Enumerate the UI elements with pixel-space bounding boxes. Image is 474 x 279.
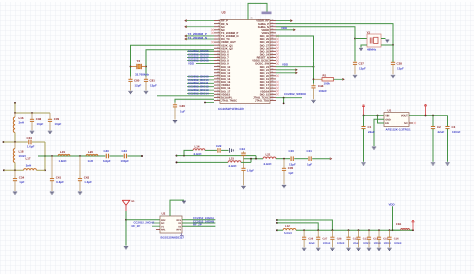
wire CC2652_DIO10 xyxy=(187,79,214,81)
ground below C3 xyxy=(445,163,449,165)
svg-text:6: 6 xyxy=(218,34,219,37)
svg-text:GND: GND xyxy=(385,118,391,121)
svg-text:C34: C34 xyxy=(19,175,25,179)
svg-text:31: 31 xyxy=(251,17,253,20)
wire VDDS to decoupling column xyxy=(276,36,314,61)
svg-text:L18: L18 xyxy=(19,149,24,153)
wire VDDS2 stub xyxy=(157,95,214,97)
junction C16 xyxy=(389,229,391,231)
svg-text:100nF: 100nF xyxy=(363,242,371,245)
wire after FB1 xyxy=(410,229,413,231)
wire VDDS column lower xyxy=(313,61,315,83)
svg-text:35: 35 xyxy=(271,58,273,61)
ground below C26 xyxy=(302,248,306,250)
svg-text:C22: C22 xyxy=(216,144,222,148)
svg-text:C28: C28 xyxy=(337,238,342,241)
ground below C34 xyxy=(13,192,17,194)
junction C14 xyxy=(368,229,370,231)
wire DCDC stub 2 xyxy=(276,72,297,74)
svg-text:25: 25 xyxy=(271,89,273,92)
svg-text:100nF: 100nF xyxy=(374,242,382,245)
svg-text:31: 31 xyxy=(271,70,273,73)
capacitor C24 series vertical xyxy=(241,151,246,159)
U3 left pins xyxy=(214,18,239,102)
wire X48M_P to crystal Y2 right xyxy=(276,24,393,45)
svg-text:25: 25 xyxy=(217,92,219,95)
capacitor C33 series xyxy=(29,140,45,145)
svg-text:8: 8 xyxy=(218,40,219,43)
svg-text:11: 11 xyxy=(217,49,219,52)
wire supply 1 xyxy=(277,220,332,230)
wire DCDC stub 1 xyxy=(276,69,297,71)
wire U2 top pin to gnd xyxy=(170,200,184,216)
capacitor C40 series xyxy=(106,154,123,159)
wire CC2652_DIO12 xyxy=(187,86,214,88)
svg-text:L12: L12 xyxy=(285,224,290,228)
inductor L18 xyxy=(13,142,15,170)
wire balun output xyxy=(276,158,290,160)
svg-text:2.4nH: 2.4nH xyxy=(194,152,202,156)
svg-text:C38: C38 xyxy=(36,117,42,121)
svg-text:C26: C26 xyxy=(308,238,313,241)
wire TX_20DBM_N xyxy=(185,38,214,40)
svg-text:VDD: VDD xyxy=(282,62,288,66)
wire balun branch A riser xyxy=(184,150,193,155)
wire CC2652_DIO06 xyxy=(187,53,214,55)
capacitor C30 series xyxy=(291,156,308,161)
wire mid row xyxy=(4,141,28,143)
svg-text:39: 39 xyxy=(271,46,273,49)
wire after L14 xyxy=(205,149,217,151)
svg-text:C1: C1 xyxy=(368,125,372,129)
svg-text:2: 2 xyxy=(218,21,219,24)
svg-text:100nF: 100nF xyxy=(337,242,345,245)
capacitor C44 xyxy=(311,84,315,100)
capacitor C22 series xyxy=(218,148,229,153)
svg-text:48MHz: 48MHz xyxy=(367,48,377,52)
wire CC2652_DIO14 xyxy=(187,93,214,95)
inductor L19 xyxy=(58,154,70,156)
svg-text:1: 1 xyxy=(218,18,219,21)
junction C28 xyxy=(332,229,334,231)
svg-text:5.6nH: 5.6nH xyxy=(284,231,292,235)
svg-text:28: 28 xyxy=(271,80,273,83)
ground below C38a xyxy=(391,75,395,77)
wire risers to output row xyxy=(244,156,264,163)
svg-text:33: 33 xyxy=(271,64,273,67)
svg-text:18: 18 xyxy=(217,70,219,73)
junction C15 xyxy=(378,229,380,231)
svg-text:42: 42 xyxy=(271,37,273,40)
svg-text:L17: L17 xyxy=(26,156,31,160)
svg-text:CC2652P1FRGZR: CC2652P1FRGZR xyxy=(218,107,245,111)
rf switch U2 body xyxy=(160,216,182,233)
regulator U1 body xyxy=(384,113,409,127)
wire JTAG_TMSC stub xyxy=(205,102,214,104)
svg-text:2.4nH: 2.4nH xyxy=(264,162,272,166)
wire CC2652_DIO11 xyxy=(187,82,214,84)
svg-text:C3: C3 xyxy=(452,125,456,129)
svg-text:10pF: 10pF xyxy=(55,122,62,126)
svg-text:23: 23 xyxy=(271,95,273,98)
svg-text:100nF: 100nF xyxy=(319,89,328,93)
port pin balun top xyxy=(176,155,178,157)
svg-text:C49: C49 xyxy=(180,104,186,108)
capacitor C34 xyxy=(13,170,17,191)
ground below C37 xyxy=(353,75,357,77)
svg-text:12pF: 12pF xyxy=(359,66,366,70)
crystal Y2 xyxy=(354,34,381,47)
wire U2 right pin 1 xyxy=(182,219,215,221)
svg-text:L21: L21 xyxy=(266,152,271,156)
svg-text:38: 38 xyxy=(271,49,273,52)
svg-text:VDD: VDD xyxy=(281,26,287,30)
U2 left pin stubs xyxy=(152,223,160,229)
wire X32K_Q2 to crystal Y3 xyxy=(146,50,214,63)
svg-text:CC2652_DIO14: CC2652_DIO14 xyxy=(188,91,209,95)
capacitor C28 xyxy=(330,230,334,247)
svg-text:45: 45 xyxy=(271,28,273,31)
ground below C1 xyxy=(361,163,365,165)
svg-text:C31: C31 xyxy=(307,149,313,153)
svg-text:C40: C40 xyxy=(104,149,110,153)
svg-text:12pF: 12pF xyxy=(397,66,404,70)
capacitor C2 xyxy=(431,116,435,162)
ground below C12 xyxy=(346,248,350,250)
svg-text:CC2652_SWDIO: CC2652_SWDIO xyxy=(284,92,307,96)
wire 2.4GHz match row xyxy=(38,155,105,157)
svg-text:6.8pF: 6.8pF xyxy=(56,180,64,184)
wire EN tie to VIN xyxy=(378,116,385,124)
inductor L20 xyxy=(86,154,98,156)
port pin L17 row xyxy=(3,169,5,171)
capacitor C16 xyxy=(387,230,391,247)
junction C26 xyxy=(303,229,305,231)
svg-text:L19: L19 xyxy=(60,150,65,154)
svg-text:12: 12 xyxy=(217,52,219,55)
wire CC2652_DIO09 xyxy=(187,76,214,78)
junction C13 xyxy=(358,229,360,231)
svg-text:20: 20 xyxy=(217,77,219,80)
svg-text:JTAG_TDO: JTAG_TDO xyxy=(255,100,269,103)
crystal Y3 xyxy=(130,63,147,77)
inductor L17 xyxy=(24,169,46,171)
svg-text:1.8nH: 1.8nH xyxy=(59,159,67,163)
wire balun row B xyxy=(177,155,257,157)
ground at U2 top xyxy=(182,201,186,203)
ground below C44 xyxy=(311,100,315,102)
capacitor C31 series xyxy=(309,156,330,161)
svg-text:21: 21 xyxy=(217,80,219,83)
svg-text:100nF: 100nF xyxy=(323,242,331,245)
ground below C16 xyxy=(387,248,391,250)
port pin supply wire 3 xyxy=(276,229,278,231)
svg-text:C80: C80 xyxy=(134,79,140,83)
wire X48M_N to crystal Y2 left xyxy=(276,27,355,61)
capacitor C49 xyxy=(173,103,177,120)
capacitor C14 xyxy=(367,230,371,247)
svg-text:100k: 100k xyxy=(324,82,331,86)
svg-text:U3: U3 xyxy=(222,11,226,15)
svg-text:R1: R1 xyxy=(323,74,327,78)
svg-text:23: 23 xyxy=(217,86,219,89)
ground below C49 xyxy=(173,121,177,123)
svg-text:L20: L20 xyxy=(88,150,93,154)
capacitor C81 xyxy=(144,77,148,91)
svg-text:32.768kHz: 32.768kHz xyxy=(135,73,150,77)
port pin balun bottom xyxy=(176,161,178,163)
U3 right pins xyxy=(252,18,276,102)
wire stub down from JTAG_TCKC xyxy=(283,98,285,104)
svg-text:26: 26 xyxy=(217,95,219,98)
svg-text:2nH: 2nH xyxy=(26,164,31,168)
svg-text:C35: C35 xyxy=(288,166,294,170)
svg-text:C42: C42 xyxy=(84,175,90,179)
svg-text:C24: C24 xyxy=(240,147,246,151)
svg-text:48: 48 xyxy=(271,18,273,21)
svg-text:3: 3 xyxy=(218,24,219,27)
svg-text:AP2112K-3.3TRG1: AP2112K-3.3TRG1 xyxy=(386,128,411,132)
wire DCOUPL to C49 xyxy=(175,99,214,102)
power port VBUS at bus end xyxy=(412,222,414,230)
ground below C35 xyxy=(282,185,286,187)
wire L17 row xyxy=(4,169,24,171)
svg-text:1.6pF: 1.6pF xyxy=(27,145,35,149)
svg-text:19: 19 xyxy=(217,74,219,77)
svg-text:100pF: 100pF xyxy=(121,159,130,163)
capacitor C42 xyxy=(78,156,82,191)
capacitor C80 xyxy=(128,77,132,91)
resistor R1 xyxy=(314,78,345,81)
wire to ferrite xyxy=(393,229,401,231)
wire antenna to U2 xyxy=(126,219,160,221)
svg-text:1pF: 1pF xyxy=(307,162,312,166)
ground below C28 xyxy=(330,248,334,250)
NC pin stub U1 xyxy=(409,122,413,124)
svg-text:15: 15 xyxy=(217,61,219,64)
wire VDD right top xyxy=(276,29,295,31)
capacitor C43 series xyxy=(124,154,142,159)
ground at Y2 bottom left xyxy=(359,48,363,50)
svg-text:26: 26 xyxy=(271,86,273,89)
wire CC2652_DIO13 xyxy=(187,89,214,91)
svg-text:Y2: Y2 xyxy=(367,30,371,34)
wire U2 right pin 3 xyxy=(182,225,215,227)
capacitor C26 xyxy=(302,230,306,247)
gnd mark at U2 bottom xyxy=(180,233,184,236)
svg-text:C81: C81 xyxy=(150,79,156,83)
svg-text:7: 7 xyxy=(218,37,219,40)
capacitor C37 xyxy=(353,61,357,74)
junction C12 xyxy=(348,229,350,231)
inductor L15 xyxy=(228,161,241,163)
svg-text:17: 17 xyxy=(217,67,219,70)
capacitor C12 xyxy=(346,230,350,247)
svg-text:FB1: FB1 xyxy=(396,222,402,226)
junction C27 xyxy=(317,229,319,231)
capacitor C27 xyxy=(316,230,320,247)
svg-text:C41: C41 xyxy=(56,175,62,179)
svg-text:12pF: 12pF xyxy=(150,84,157,88)
ground below C15 xyxy=(377,248,381,250)
svg-text:1uF: 1uF xyxy=(180,110,185,114)
no-connect marks U3 left xyxy=(211,29,213,44)
svg-text:C44: C44 xyxy=(318,84,324,88)
capacitor C13 xyxy=(356,230,360,247)
ground below C23 xyxy=(241,186,245,188)
ground below C80 xyxy=(128,91,132,93)
ferrite bead FB1 xyxy=(401,228,410,230)
capacitor C39 xyxy=(48,113,52,130)
svg-text:C37: C37 xyxy=(359,62,365,66)
svg-text:10pF: 10pF xyxy=(37,122,44,126)
wire Y2 bottom left to gnd xyxy=(361,45,367,48)
svg-text:RF1: RF1 xyxy=(161,229,166,232)
svg-text:L14: L14 xyxy=(195,144,200,148)
wire regulator input xyxy=(364,115,385,117)
svg-text:16: 16 xyxy=(217,64,219,67)
wire CC2652_DIO05 xyxy=(187,50,214,52)
power port 3V3 at regulator output xyxy=(425,106,427,116)
port pin top of left network xyxy=(14,102,16,104)
svg-text:13: 13 xyxy=(217,55,219,58)
svg-text:22uF: 22uF xyxy=(438,130,445,134)
svg-text:VIN: VIN xyxy=(385,115,389,118)
svg-text:40: 40 xyxy=(271,43,273,46)
capacitor C15 xyxy=(377,230,381,247)
wire VDD drop xyxy=(392,206,394,230)
wire Y2 bottom right xyxy=(381,44,393,46)
svg-text:2nH: 2nH xyxy=(19,121,24,125)
svg-text:36: 36 xyxy=(271,55,273,58)
svg-text:C39: C39 xyxy=(54,117,60,121)
wire antenna stem xyxy=(125,211,127,246)
ground below U1 xyxy=(372,147,376,149)
svg-text:VDD: VDD xyxy=(389,202,395,206)
svg-text:37: 37 xyxy=(271,52,273,55)
inductor L14 xyxy=(193,149,205,151)
svg-text:VOUT: VOUT xyxy=(401,115,408,118)
svg-text:L16: L16 xyxy=(19,116,24,120)
wire RF_P xyxy=(185,20,214,22)
U1 pin texts xyxy=(385,115,408,126)
svg-text:41: 41 xyxy=(271,40,273,43)
svg-text:RF_2P: RF_2P xyxy=(193,223,202,227)
svg-text:100nF: 100nF xyxy=(394,242,402,245)
ground below C2 xyxy=(431,163,435,165)
wire VDD left xyxy=(196,63,214,65)
power port VBUS at regulator input xyxy=(363,106,365,115)
svg-text:C2: C2 xyxy=(437,125,441,129)
svg-text:30: 30 xyxy=(271,74,273,77)
wire JTAG_TCKC xyxy=(276,97,302,99)
port pin supply wire 2 xyxy=(276,222,278,224)
svg-text:1nH: 1nH xyxy=(88,159,93,163)
wire VOUT rail xyxy=(409,115,448,117)
no-connect marks U3 right xyxy=(276,35,278,96)
wire supply 2 xyxy=(277,223,318,230)
svg-text:27: 27 xyxy=(217,98,219,101)
capacitor C35 xyxy=(282,159,286,185)
svg-text:22uF: 22uF xyxy=(368,130,375,134)
svg-text:47: 47 xyxy=(271,21,273,24)
svg-text:VDD: VDD xyxy=(188,61,194,65)
ground below C41 xyxy=(50,192,54,194)
svg-text:RF_2P: RF_2P xyxy=(132,224,141,228)
svg-text:12pF: 12pF xyxy=(135,84,142,88)
svg-text:22uF: 22uF xyxy=(309,242,315,245)
svg-text:EN: EN xyxy=(385,122,389,125)
svg-text:100nF: 100nF xyxy=(384,242,392,245)
svg-text:C27: C27 xyxy=(323,238,328,241)
svg-text:C38: C38 xyxy=(397,62,403,66)
svg-text:46: 46 xyxy=(271,24,273,27)
inductor L16 xyxy=(13,113,15,142)
svg-text:1.6pF: 1.6pF xyxy=(247,169,255,173)
svg-text:29: 29 xyxy=(271,77,273,80)
svg-text:C30: C30 xyxy=(289,149,295,153)
capacitor C23 shunt below C24 xyxy=(241,159,245,186)
svg-text:NC: NC xyxy=(404,122,408,125)
wire TX_20DBM_P xyxy=(185,35,214,37)
svg-text:RF4: RF4 xyxy=(176,229,181,232)
antenna E1 xyxy=(122,200,130,211)
wire GND pin of U1 xyxy=(374,119,384,146)
ground below C39 xyxy=(48,131,52,133)
wire VDDR_RF stub xyxy=(276,20,292,22)
svg-text:22: 22 xyxy=(271,98,273,101)
svg-text:U1: U1 xyxy=(388,108,392,112)
wire CC2652_DIO08 xyxy=(187,60,214,62)
svg-text:5: 5 xyxy=(218,31,219,34)
capacitor C41 xyxy=(50,156,54,191)
wire balun row D xyxy=(177,161,229,163)
wire Y2 right pin to gnd xyxy=(381,38,386,40)
power port bar VDDS xyxy=(262,12,272,15)
svg-text:BGS12SN6E6327: BGS12SN6E6327 xyxy=(161,236,185,240)
capacitor C38a xyxy=(391,45,395,74)
ground below C42 xyxy=(78,192,82,194)
IC U3 CC2652P MCU body xyxy=(220,20,270,104)
wire supply bus xyxy=(296,229,413,231)
svg-text:C16: C16 xyxy=(394,238,399,241)
wire L15 to riser xyxy=(241,161,251,163)
wire U3 top VDDS to power bar xyxy=(248,3,267,19)
svg-text:10: 10 xyxy=(217,46,219,49)
arrow end balun output xyxy=(330,158,332,160)
wire VDD mid right xyxy=(276,66,314,68)
ground below C81 xyxy=(144,91,148,93)
svg-text:43: 43 xyxy=(271,34,273,37)
svg-text:U2: U2 xyxy=(162,211,166,215)
port pin supply wire 1 xyxy=(276,219,278,221)
svg-text:C33: C33 xyxy=(27,136,33,140)
svg-text:Y3: Y3 xyxy=(137,59,141,63)
wire right branch vertical xyxy=(44,142,46,170)
svg-text:TX_20DBM_N: TX_20DBM_N xyxy=(188,36,208,40)
svg-text:6.8pF: 6.8pF xyxy=(103,159,111,163)
svg-text:L15: L15 xyxy=(229,156,234,160)
capacitor C1 xyxy=(361,116,365,162)
port pin end of match row xyxy=(141,155,143,157)
port pin mid row xyxy=(3,141,5,143)
wire CC2652_DIO07 xyxy=(187,56,214,58)
ground below antenna xyxy=(124,247,128,249)
inductor L21 xyxy=(263,157,276,159)
ground below C14 xyxy=(367,248,371,250)
ground below C27 xyxy=(316,248,320,250)
svg-text:100nF: 100nF xyxy=(452,130,461,134)
